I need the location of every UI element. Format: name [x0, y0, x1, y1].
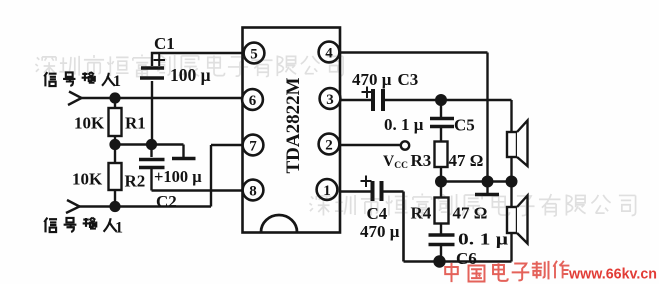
wire C1 bottom to node A	[151, 81, 153, 145]
svg-text:10K: 10K	[72, 170, 103, 189]
svg-text:TDA2822M: TDA2822M	[283, 77, 304, 173]
wire C2 to pin 8	[152, 189, 243, 191]
pin 8	[243, 180, 264, 201]
resistor R3	[435, 142, 448, 168]
svg-text:1: 1	[113, 73, 121, 90]
wire node line to ground stub	[115, 145, 184, 158]
watermark line 2	[309, 193, 635, 216]
svg-text:470 μ: 470 μ	[352, 70, 392, 89]
wire R2 bottom stub	[114, 190, 116, 207]
pin 6	[242, 89, 263, 110]
svg-text:7: 7	[249, 138, 257, 154]
ground bar left	[172, 157, 196, 161]
node R1 bottom junction	[109, 139, 120, 150]
notch	[261, 215, 297, 232]
svg-text:R3: R3	[411, 151, 432, 170]
pin 4	[319, 42, 340, 63]
node ground junction	[482, 176, 494, 188]
capacitor C2	[139, 145, 165, 191]
node speaker junction	[506, 176, 518, 188]
pin 3	[320, 88, 341, 109]
wire pin 1 to C4	[340, 190, 371, 192]
wire speaker2 top	[510, 182, 512, 208]
capacitor C3	[362, 87, 384, 112]
wire C4 to bottom rail	[384, 192, 512, 262]
wire speaker1 top	[510, 100, 512, 132]
ground	[475, 182, 499, 195]
node C1/C2 junction	[146, 139, 157, 150]
resistor R1	[109, 108, 122, 136]
pin 5	[244, 43, 265, 64]
input terminal 2 arrow	[66, 200, 80, 213]
speaker BL2	[507, 196, 528, 244]
pin 7	[243, 135, 264, 156]
wire pin 3 to C3	[340, 99, 371, 101]
wire speaker2 bottom	[510, 233, 512, 262]
node input2/R2 junction	[109, 201, 120, 212]
wire pin5 to C1	[152, 53, 242, 66]
capacitor C5	[430, 100, 454, 142]
node input1/R1 junction	[109, 92, 120, 103]
capacitor C6	[429, 235, 455, 262]
wire R1 bottom stub	[114, 136, 116, 145]
node out1/C5 junction	[435, 94, 447, 106]
node C6 bottom junction	[433, 255, 445, 267]
label signal input 1 (top)	[44, 72, 115, 86]
wire R4 to C6	[440, 224, 442, 235]
svg-text:C2: C2	[156, 192, 177, 211]
resistor R2	[109, 163, 122, 190]
capacitor C4	[361, 176, 382, 202]
capacitor C1	[140, 54, 165, 78]
wire mid rail	[440, 180, 512, 182]
svg-text:6: 6	[249, 93, 257, 109]
svg-text:8: 8	[249, 183, 257, 199]
pin 1	[317, 179, 338, 200]
wire R3 bottom stub	[440, 167, 442, 182]
wire speaker1 bottom	[510, 157, 512, 182]
node R3/R4 junction	[435, 176, 447, 188]
svg-text:470 μ: 470 μ	[360, 222, 400, 241]
svg-text:VCC: VCC	[383, 153, 408, 171]
svg-text:3: 3	[326, 92, 334, 108]
resistor R4	[435, 198, 449, 224]
svg-text:R1: R1	[125, 114, 146, 133]
svg-text:0. 1 μ: 0. 1 μ	[458, 230, 508, 249]
svg-text:R2: R2	[125, 172, 146, 191]
wire pin 4 to ground rail	[340, 53, 488, 182]
svg-text:www.66kv.cn: www.66kv.cn	[568, 266, 657, 283]
wire R2 top stub	[114, 145, 116, 164]
svg-text:4: 4	[325, 45, 333, 61]
wire R1 top stub	[114, 98, 116, 108]
svg-text:+100 μ: +100 μ	[154, 167, 202, 186]
svg-text:1: 1	[115, 220, 123, 237]
terminal Vcc	[401, 141, 409, 149]
input terminal 1 arrow	[68, 92, 82, 106]
svg-text:C3: C3	[398, 70, 419, 89]
wire input2 to pin7 riser	[79, 145, 211, 207]
svg-text:0. 1 μ: 0. 1 μ	[384, 115, 424, 134]
speaker BL1	[507, 121, 528, 167]
svg-text:47 Ω: 47 Ω	[449, 151, 484, 170]
op-amp U1 TDA2822M body	[243, 28, 341, 233]
pin 2	[319, 134, 340, 155]
wire riser to pin 7	[211, 144, 242, 146]
svg-text:C5: C5	[454, 116, 475, 135]
wire C3 to speaker 1	[385, 99, 512, 101]
wire input1 to pin 6	[81, 97, 242, 99]
watermark red brand	[445, 261, 569, 282]
svg-text:10K: 10K	[74, 114, 105, 133]
svg-text:2: 2	[325, 137, 333, 153]
wire R4 top stub	[440, 182, 442, 199]
svg-text:C1: C1	[154, 34, 175, 53]
watermark line 1	[35, 54, 343, 76]
label signal input 1 (bottom)	[44, 218, 116, 233]
wire pin 2 to Vcc	[340, 144, 401, 146]
